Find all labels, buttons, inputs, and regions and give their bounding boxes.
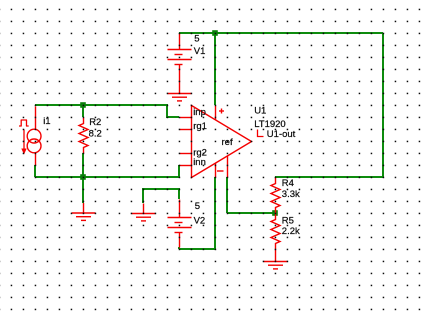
junction at divider midpoint (272, 210, 278, 216)
ground below R5 (264, 250, 288, 269)
wire: inn riser (178, 165, 180, 177)
wire: into inp pin (166, 116, 179, 118)
resistor R4 (271, 178, 280, 214)
wire: V2 plus to its ground (143, 188, 179, 190)
wire: top-left rail I1 to bend (35, 104, 167, 106)
wire: I1 bottom lead (green) (34, 165, 36, 177)
wire: V2 minus to U1 Vminus (179, 248, 215, 250)
wire: V2 top lead green (178, 188, 180, 199)
wire: R2 bottom lead (green) (82, 153, 84, 177)
wire: ref pin drop (226, 177, 228, 213)
wire: top rail V1+ to right (179, 32, 383, 34)
ground below R2 junction (72, 203, 96, 220)
junction at R2 bottom / ground (80, 174, 86, 180)
wire: V2 ground drop (142, 188, 144, 203)
ground for V2 (132, 204, 156, 221)
junction at V+ tap (212, 30, 218, 36)
resistor R2 (79, 118, 88, 154)
wire: V2 minus down (178, 247, 180, 249)
ground for V1 (168, 94, 192, 101)
wire: V+ feed down to U1 (214, 33, 216, 105)
wire: bend down toward inp (166, 104, 168, 117)
op-amp U1 (LT1920 instrumentation amplifier) (180, 106, 252, 178)
wire: ref to divider midpoint (227, 212, 275, 214)
junction at R2 top (80, 102, 86, 108)
wire: R2 top lead (green) (82, 105, 84, 117)
resistor R5 (271, 214, 280, 250)
battery V1 (168, 34, 192, 94)
plus power marker (219, 109, 224, 114)
wire: bottom of right loop to R4 top (275, 176, 383, 178)
net label hook U1-out (258, 130, 264, 137)
wire: right vertical rail (382, 33, 384, 177)
minus power marker (217, 170, 224, 172)
wire: U1 Vminus riser (214, 177, 216, 249)
battery V2 (168, 200, 192, 248)
wire: ground drop below R2 junction (82, 177, 84, 203)
current source I1 (19, 107, 41, 166)
wire: bottom-left rail to inn (35, 176, 179, 178)
arrowhead of I1 (21, 149, 26, 155)
